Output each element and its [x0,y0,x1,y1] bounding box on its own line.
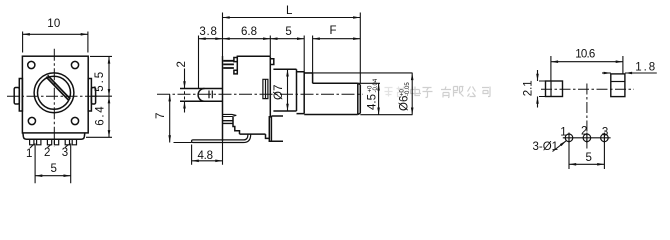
svg-text:4.8: 4.8 [198,150,214,162]
shaft flat [313,82,358,84]
pin 1 stub [30,139,41,145]
svg-text:1.8: 1.8 [635,61,655,73]
shaft end face [358,83,361,114]
right lug pad [611,74,625,97]
front bracket leg [269,116,283,141]
svg-text:4.5: 4.5 [367,94,379,110]
svg-text:3: 3 [62,147,68,159]
svg-text:5: 5 [586,152,592,164]
right side lug outer [91,88,95,105]
dim 4.5 [378,83,380,114]
svg-text:7: 7 [155,113,167,119]
svg-text:3: 3 [602,127,608,139]
right side lug strip [88,79,91,112]
dim 1.8 [602,72,611,74]
rotor outer circle [34,73,74,113]
mounting hole top-left [28,61,35,68]
dim Ø7 [287,69,289,111]
svg-text:5: 5 [285,26,291,38]
leader 3-Ø1 [553,141,567,152]
dim 6.4 right [86,136,112,138]
svg-text:5.5: 5.5 [94,72,106,92]
middle view centerline [157,93,363,95]
rotor inner circle [38,76,71,109]
pin hole 1 [565,134,573,142]
svg-text:2: 2 [176,61,188,67]
mounting hole bottom-left [28,117,35,124]
dim 5.5 right [90,56,112,96]
washer/neck [297,72,305,114]
ext lines top [199,13,361,89]
svg-text:1: 1 [560,127,566,139]
svg-text:6.4: 6.4 [94,106,106,126]
left lug pad [546,81,563,97]
left side lug strip [19,79,22,112]
pin hole 2 [583,134,591,142]
left view dimensions [23,32,112,184]
svg-text:Ø6: Ø6 [399,96,411,111]
right view dimensions [538,56,657,169]
dim 10.6 [551,56,623,81]
dim 10 top [23,32,88,53]
screwdriver slot [46,75,70,100]
dim 4.8 [192,141,223,165]
dim L [223,17,361,19]
svg-text:6.8: 6.8 [241,26,257,38]
mounting hole top-right [71,61,78,68]
bottom back ratchet steps [233,117,240,134]
body side outline [222,56,224,141]
left side lug outer [14,88,19,105]
pin 2 stub [47,139,58,145]
svg-text:3.8: 3.8 [199,26,217,38]
shaft top [304,73,312,83]
svg-text:-0.04: -0.04 [373,78,379,92]
pin 3 stub [65,139,76,145]
svg-text:L: L [286,5,293,17]
pin bent lead [192,134,251,142]
ext lines shaft [304,73,412,115]
pin number leaders [30,145,69,149]
svg-text:10.6: 10.6 [575,49,595,61]
dim Ø6 [411,73,413,115]
svg-text:F: F [330,25,337,37]
dim 5 (bushing) [270,38,304,40]
dim F [313,38,361,40]
front tab bump [270,59,274,65]
inner wiper post [263,79,268,98]
right view centerlines [541,84,634,149]
terminal lug (back, with hole) [180,89,223,102]
shaft bottom [304,114,358,116]
mounting hole bottom-right [71,117,78,124]
bushing [273,69,296,111]
dim 7 (center to pin) [169,94,171,142]
dim 2.1 [537,70,539,81]
front bottom foot [266,134,284,141]
watermark 电子有限公司 [385,87,491,98]
dim 5 bottom [35,144,71,184]
dim 5 (pins) [569,143,604,170]
svg-text:-0.05: -0.05 [405,82,411,96]
body bottom edge [240,133,266,135]
body outline [22,56,88,133]
svg-text:2.1: 2.1 [522,80,534,96]
pins horizontal centerline [563,137,611,139]
pin hole 3 [601,134,609,142]
svg-text:Ø7: Ø7 [273,85,285,100]
dim 2 (lug thickness) [184,69,186,89]
svg-text:5: 5 [51,163,57,175]
svg-text:10: 10 [47,18,60,30]
right view pins [563,133,611,143]
dim 6.8 [223,38,271,40]
bottom skirt [23,133,85,139]
svg-text:2: 2 [581,126,587,138]
svg-text:3-Ø1: 3-Ø1 [533,141,559,153]
svg-text:2: 2 [44,147,50,159]
dim 3.8 [199,38,223,40]
middle view dimensions [170,13,413,165]
back top terminal stack [223,61,234,68]
left view centerlines [7,49,97,147]
svg-text:1: 1 [26,148,32,160]
